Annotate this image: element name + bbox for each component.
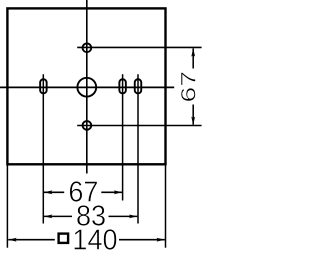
dim 67 line right segment xyxy=(101,191,122,193)
right slot A (obround) xyxy=(119,79,126,93)
center hole circle xyxy=(77,78,96,97)
top hole horizontal centerline xyxy=(77,46,201,48)
right dim 67 vertical line top segment with up arrow xyxy=(192,48,194,68)
right dim 67 vertical line bottom segment with down arrow xyxy=(192,105,194,125)
dim 140 left arrow xyxy=(8,238,16,242)
right slot B centerline / extension line xyxy=(137,74,139,223)
left edge extension line xyxy=(6,164,8,248)
dim 83 line left segment xyxy=(44,215,72,217)
dim 140 right arrow xyxy=(157,238,165,242)
top mounting hole circle xyxy=(83,43,92,52)
bottom mounting hole circle xyxy=(83,121,92,130)
vertical centerline xyxy=(86,0,88,174)
dim 67 line left segment xyxy=(44,191,64,193)
bottom hole horizontal centerline xyxy=(77,125,201,127)
svg-text:67: 67 xyxy=(177,71,201,103)
plate outline (square 140) xyxy=(7,8,165,164)
dim 83 right arrow xyxy=(129,215,137,219)
right edge extension line xyxy=(165,164,167,248)
right slot B (obround) xyxy=(135,79,142,93)
left slot centerline / extension line xyxy=(42,74,44,223)
dim 83 left arrow xyxy=(44,215,52,219)
dim 67 left arrow xyxy=(44,190,52,194)
dim 140 line right segment xyxy=(119,239,165,241)
square symbol of dim 140 xyxy=(59,234,69,243)
right slot A centerline / extension line xyxy=(122,74,124,200)
dim 67 right arrow xyxy=(114,190,122,194)
svg-text:140: 140 xyxy=(72,224,117,256)
horizontal centerline xyxy=(0,86,174,88)
left slot (obround) xyxy=(40,79,47,93)
dim 83 line right segment xyxy=(109,215,138,217)
dim 140 line left segment xyxy=(8,239,55,241)
